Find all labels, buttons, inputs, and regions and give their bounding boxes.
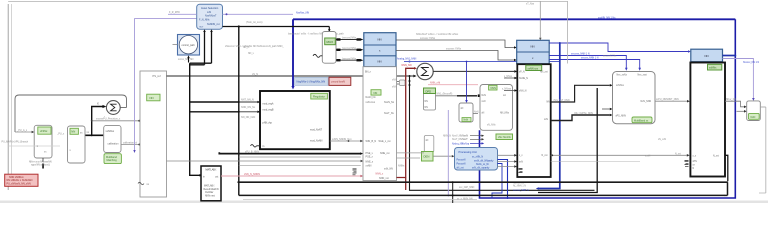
svg-text:NN: NN: [425, 107, 429, 109]
svg-text:PU_xNNxxN_NN_xNN: PU_xNNxxN_NN_xNN: [7, 182, 31, 185]
svg-text:NxxT_Nx: NxxT_Nx: [384, 112, 395, 115]
svg-text:xxNN xxx: xxNN xxx: [528, 67, 539, 70]
svg-text:WIN_B_N: WIN_B_N: [366, 140, 377, 143]
svg-text:BN_x: BN_x: [365, 71, 372, 74]
svg-text:NxT: NxT: [200, 27, 205, 29]
svg-text:xxxxxxPU_Precision_x: xxxxxxPU_Precision_x: [96, 118, 121, 121]
svg-text:NNN_NN_Nx: NNN_NN_Nx: [241, 106, 256, 109]
svg-text:x: x: [97, 102, 99, 106]
svg-text:xxN xxxx: xxN xxxx: [366, 101, 376, 104]
svg-text:xPS_NNN: xPS_NNN: [616, 115, 627, 117]
svg-text:NN1_(NxxxxP): NN1_(NxxxxP): [437, 93, 453, 96]
svg-text:xxxxx_NP_NN: xxxxx_NP_NN: [178, 58, 194, 61]
svg-text:F_R_MHz: F_R_MHz: [169, 11, 181, 14]
svg-text:(Twin_tst_xxxx): (Twin_tst_xxxx): [246, 21, 263, 24]
svg-text:mod_NxNT: mod_NxNT: [310, 129, 323, 132]
svg-text:NNT_NN_N: NNT_NN_N: [241, 99, 254, 102]
svg-text:xxxNN_NN 1 Nx: xxxNN_NN 1 Nx: [598, 16, 616, 19]
svg-text:NN_NNx: NN_NNx: [500, 113, 510, 115]
svg-text:NxNE_N: NxNE_N: [519, 78, 528, 80]
svg-text:NN: NN: [531, 45, 535, 49]
svg-text:xxxN_xN_NNparity: xxxN_xN_NNparity: [474, 159, 494, 162]
svg-text:Result MatchN: Result MatchN: [204, 188, 219, 191]
svg-text:F_N_NNx: F_N_NNx: [199, 19, 210, 22]
svg-text:xN: xN: [426, 140, 429, 142]
svg-text:N_xxt: N_xxt: [542, 154, 548, 157]
svg-text:xN_NNx: xN_NNx: [487, 124, 496, 126]
svg-text:NNNs: NNNs: [398, 165, 405, 168]
svg-text:. NxNxp: . NxNxp: [461, 143, 470, 145]
svg-text:_PU_x: _PU_x: [56, 133, 65, 136]
svg-text:Asset Selection: Asset Selection: [201, 7, 219, 10]
svg-text:out: out: [215, 175, 219, 178]
svg-text:xNN: xNN: [392, 87, 397, 89]
svg-text:xxxxxx_NNN 1 N: xxxxxx_NNN 1 N: [581, 58, 599, 60]
svg-text:mod_NxNN: mod_NxNN: [310, 140, 323, 143]
svg-text:NN: NN: [374, 91, 378, 95]
svg-text:xNxxxxx f xNN - f xNxxNx NN Nx: xNxxxxx f xNN - f xNxxNx NN NxNxxxxxxN_p…: [225, 45, 284, 48]
svg-text:xxNNxx: xxNNxx: [616, 85, 625, 87]
svg-text:Matching: Matching: [107, 159, 118, 162]
svg-text:xPN: xPN: [693, 161, 698, 163]
svg-text:pxxxd bxxN: pxxxd bxxN: [332, 80, 346, 84]
svg-text:xxN_xN_xxparity: xxN_xN_xxparity: [472, 167, 490, 170]
svg-text:xP_N: xP_N: [519, 72, 525, 74]
svg-text:xNN: xNN: [392, 80, 397, 82]
svg-text:xxxxxxN f Nx: xxxxxxN f Nx: [603, 56, 617, 58]
svg-text:NxNx_xx_Nt: NxNx_xx_Nt: [476, 163, 489, 166]
svg-text:xxN_NN: xxN_NN: [384, 168, 393, 171]
svg-text:control_path: control_path: [182, 44, 196, 47]
svg-text:xx_xNN_N: xx_xNN_N: [472, 157, 483, 159]
svg-text:NN: NN: [150, 96, 154, 100]
svg-text:NNN_xNt: NNN_xNt: [430, 82, 440, 85]
svg-text:(N)x_NxT_NNN: (N)x_NxT_NNN: [554, 100, 570, 102]
svg-text:xxNNx: xxNNx: [709, 67, 717, 70]
svg-text:NxN: NxN: [464, 119, 469, 122]
svg-text:NNN next: NNN next: [205, 194, 215, 197]
svg-text:NNE_x: NNE_x: [366, 161, 374, 164]
svg-text:xNN_N: xNN_N: [519, 90, 527, 92]
svg-text:calibration: calibration: [108, 143, 120, 146]
svg-text:xxxxxx_NNP 1x: xxxxxx_NNP 1x: [513, 190, 530, 192]
svg-text:ngxx NN xxNxxx(·): ngxx NN xxNxxx(·): [31, 165, 50, 167]
svg-text:Regulator: Regulator: [313, 95, 325, 99]
svg-text:xxt: xxt: [503, 94, 506, 97]
svg-text:Processing Unit: Processing Unit: [459, 150, 477, 154]
svg-text:. NxxT: . NxxT: [461, 139, 468, 141]
svg-text:NN: NN: [705, 54, 709, 58]
svg-text:NNN_NN: NNN_NN: [402, 64, 412, 67]
svg-text:N_xxt: N_xxt: [675, 152, 681, 155]
svg-text:xxN: xxN: [519, 162, 523, 164]
svg-text:xxxxxxx f NNx: xxxxxxx f NNx: [420, 37, 436, 40]
svg-text:PxxxxxN: PxxxxxN: [457, 163, 466, 165]
svg-text:xNx NxxNx: xNx NxxNx: [498, 135, 512, 139]
svg-text:xN: xN: [482, 113, 485, 115]
svg-text:Nxx_xxxt: Nxx_xxxt: [638, 74, 648, 77]
svg-text:NN: NN: [378, 37, 382, 41]
svg-text:NxxN_Nx: NxxN_Nx: [366, 96, 377, 99]
svg-text:xN: xN: [461, 108, 464, 110]
svg-text:xxNN: xxNN: [366, 165, 372, 168]
svg-text:NN_xxt: NN_xxt: [540, 71, 548, 74]
svg-text:NN_NN_NxN: NN_NN_NxN: [241, 116, 255, 119]
svg-text:xNN_N_NNNN: xNN_N_NNNN: [244, 173, 260, 176]
svg-text:MultiBand xx: MultiBand xx: [634, 119, 649, 122]
svg-text:xxNNxx: xxNNxx: [106, 130, 115, 133]
svg-text:NNN: NNN: [491, 87, 497, 90]
svg-text:NxxNNxxT: NxxNNxxT: [205, 15, 217, 18]
svg-text:OutliNer: OutliNer: [205, 191, 214, 194]
svg-text:xNNx: xNNx: [40, 129, 48, 133]
svg-text:NNxxNxxT xxNxx - f xxxNxxx NN: NNxxNxxT xxNxx - f xxxNxxx NN xxNxx: [416, 33, 459, 36]
svg-text:(xxxxxx) NNx: (xxxxxx) NNx: [342, 57, 357, 60]
svg-text:x_NNxx: x_NNxx: [504, 76, 513, 78]
svg-text:(N)x_NxPSx_NNN: (N)x_NxPSx_NNN: [574, 113, 593, 115]
svg-text:NxxN_Nx: NxxN_Nx: [384, 101, 395, 104]
svg-text:mod_regA: mod_regA: [263, 102, 274, 105]
svg-text:NN_x: NN_x: [248, 53, 255, 55]
svg-text:xxxxxxx_NNN 1 N: xxxxxxx_NNN 1 N: [571, 54, 590, 56]
svg-text:NN: NN: [425, 101, 429, 103]
svg-text:calibration_xI: calibration_xI: [123, 141, 137, 144]
svg-text:(xxxxxx) NNx: (xxxxxx) NNx: [342, 37, 357, 40]
svg-text:NNN_N: NNN_N: [443, 135, 451, 137]
svg-text:NNN_x: NNN_x: [376, 173, 385, 176]
svg-text:PU_MAR-(+)/PU_Branch: PU_MAR-(+)/PU_Branch: [2, 141, 29, 144]
svg-text:NN+(_NN: NN+(_NN: [726, 99, 736, 101]
svg-text:xxPU_NNNNNT_NNN: xxPU_NNNNNT_NNN: [656, 99, 679, 101]
svg-text:NxNNN_xxt: NxNNN_xxt: [207, 23, 220, 26]
svg-text:NNN_xxt: NNN_xxt: [379, 177, 389, 180]
svg-text:PxxxxxN: PxxxxxN: [457, 159, 466, 161]
svg-text:. NxxN: . NxxN: [461, 136, 468, 138]
svg-text:MUX: MUX: [327, 40, 334, 44]
svg-text:PSE_x: PSE_x: [366, 156, 374, 159]
svg-text:NxN: NxN: [482, 95, 487, 97]
svg-text:xxxxxxx f NNx: xxxxxxx f NNx: [446, 48, 462, 51]
svg-text:mod_regB: mod_regB: [263, 108, 274, 111]
svg-text:pNN_rkp: pNN_rkp: [263, 121, 273, 124]
svg-text:Nxx_xxNx: Nxx_xxNx: [617, 75, 628, 77]
svg-text:DEN: DEN: [424, 155, 430, 159]
svg-text:DPD: DPD: [426, 89, 432, 93]
svg-text:xN_xxN: xN_xxN: [658, 139, 666, 141]
svg-text:Analog_NN1_NNN: Analog_NN1_NNN: [397, 58, 417, 61]
svg-text:N_xxt: N_xxt: [713, 154, 719, 157]
svg-text:NxgNNx-(-) NxgNNx_NN: NxgNNx-(-) NxgNNx_NN: [297, 80, 326, 84]
svg-text:NNE_xxt: NNE_xxt: [380, 152, 390, 155]
svg-text:xT_Nxx: xT_Nxx: [526, 3, 535, 6]
svg-text:xN_N: xN_N: [252, 73, 258, 76]
svg-text:NxN: NxN: [751, 116, 756, 119]
svg-text:x_NNxxx: x_NNxxx: [502, 89, 512, 91]
svg-text:xxNN_NNNN_Nxx: xxNN_NNNN_Nxx: [332, 138, 352, 141]
svg-text:NNx+ a xx NNxxxxNN: NNx+ a xx NNxxxxNN: [29, 162, 52, 164]
svg-text:_PU_A_x: _PU_A_x: [16, 129, 28, 132]
svg-text:NN: NN: [71, 130, 75, 134]
svg-text:x_xN: x_xN: [645, 155, 651, 157]
svg-text:NN: NN: [547, 102, 551, 104]
svg-text:xxN: xxN: [482, 101, 486, 103]
svg-text:PS_ref: PS_ref: [153, 74, 161, 78]
svg-text:(xxxxxx) NNx: (xxxxxx) NNx: [342, 47, 357, 50]
svg-text:MATLAB f.: MATLAB f.: [204, 185, 215, 188]
svg-text:NxxNxx_NN: NxxNxx_NN: [296, 12, 309, 15]
svg-text:xN_xxt: xN_xxt: [457, 166, 464, 169]
svg-text:NxN_NNN: NxN_NNN: [641, 101, 652, 103]
svg-text:WxE_x_xxt: WxE_x_xxt: [379, 140, 391, 143]
svg-text:Nxxxxx_NN 1 N: Nxxxxx_NN 1 N: [743, 62, 760, 64]
svg-text:xxx_NxP_NNN: xxx_NxP_NNN: [459, 187, 475, 189]
svg-text:N(_NNN 1 N: N(_NNN 1 N: [513, 186, 526, 188]
svg-text:xxN: xxN: [544, 119, 548, 121]
svg-text:NN: NN: [378, 59, 382, 63]
svg-text:MATLAB f.: MATLAB f.: [206, 169, 218, 172]
svg-text:xPU_B_NNN: xPU_B_NNN: [245, 150, 259, 153]
